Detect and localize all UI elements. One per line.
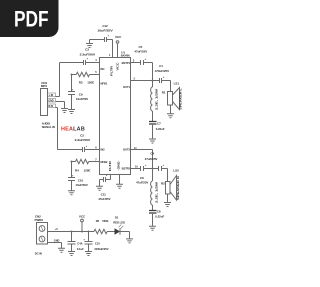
- wire C1 to speaker LS1: [162, 81, 171, 92]
- svg-text:VCC: VCC: [79, 214, 86, 218]
- svg-text:+: +: [162, 163, 164, 167]
- svg-text:IN1: IN1: [101, 67, 106, 71]
- wire C14 down: [71, 232, 73, 242]
- resistor R3: [72, 74, 77, 76]
- capacitor C14 plates: [68, 242, 76, 245]
- node VCC terminal: [116, 41, 119, 44]
- svg-text:C4: C4: [150, 152, 154, 156]
- svg-text:120E: 120E: [84, 168, 91, 172]
- wire C5 to OUT1 node: [144, 63, 153, 81]
- speaker LS1: [168, 88, 180, 110]
- wire C7 to ground: [152, 124, 154, 139]
- svg-text:C8: C8: [157, 210, 161, 214]
- svg-text:2.2uF/50V: 2.2uF/50V: [75, 138, 91, 142]
- svg-text:C10: C10: [95, 242, 100, 246]
- resistor R4: [72, 161, 76, 163]
- svg-text:2.2E, 1/2W: 2.2E, 1/2W: [154, 88, 158, 110]
- svg-text:FLTR: FLTR: [110, 66, 114, 76]
- node VCC terminal 2: [81, 219, 84, 222]
- svg-text:SIGNAL IN: SIGNAL IN: [42, 125, 55, 129]
- ground C11: [96, 186, 103, 190]
- wire C2 to IN2 pin 6: [85, 149, 100, 151]
- svg-text:+V: +V: [55, 228, 58, 231]
- connector CN1 body: [41, 89, 48, 116]
- svg-text:10uF/25V: 10uF/25V: [97, 29, 113, 33]
- svg-text:RED LED: RED LED: [113, 221, 125, 225]
- svg-text:C2: C2: [80, 134, 84, 138]
- capacitor C3 plates: [84, 60, 86, 65]
- node R4/C10 junction: [71, 161, 73, 163]
- ground IC GND: [116, 184, 123, 188]
- svg-text:C1: C1: [159, 64, 163, 68]
- wire C13 to ground: [152, 213, 154, 226]
- ground D1: [126, 239, 133, 243]
- svg-text:R4: R4: [75, 168, 79, 172]
- svg-text:R IN: R IN: [48, 105, 53, 108]
- wire C3 to IN1 pin 4: [86, 62, 100, 64]
- PDF badge: [0, 0, 59, 37]
- wire +V rail: [48, 231, 95, 233]
- connector CN1 pin box R IN: [48, 104, 56, 108]
- capacitor C5 plates: [141, 60, 144, 65]
- node junction C14: [71, 231, 73, 233]
- svg-text:7: 7: [95, 158, 97, 161]
- wire C12 to ground: [90, 40, 105, 44]
- ground CN2: [58, 248, 65, 252]
- ground CN1: [61, 109, 68, 113]
- connector CN1 pin box GND: [48, 99, 56, 103]
- svg-text:BA5406: BA5406: [121, 55, 131, 58]
- node junction C8: [88, 231, 90, 233]
- svg-text:VCC: VCC: [116, 62, 120, 70]
- wire OUT2 pin 11: [131, 150, 153, 169]
- svg-text:R5: R5: [96, 219, 100, 223]
- capacitor C12 plates: [105, 37, 107, 42]
- svg-text:0.1uF: 0.1uF: [77, 247, 84, 251]
- wire CN1 GND to ground: [56, 102, 65, 109]
- wire R5 to D1: [107, 231, 114, 233]
- svg-text:PDF: PDF: [14, 6, 49, 31]
- svg-text:PWR2: PWR2: [35, 218, 44, 222]
- svg-text:C12: C12: [102, 24, 108, 28]
- svg-text:DC IN: DC IN: [35, 251, 42, 255]
- wire R IN to C2: [56, 108, 83, 150]
- capacitor C11 plates: [104, 177, 106, 182]
- capacitor C7 plates: [149, 122, 157, 125]
- svg-text:C11: C11: [101, 193, 107, 197]
- resistor R2: [152, 169, 154, 182]
- connector CN2 body: [37, 223, 48, 245]
- wire C8 to ground: [88, 244, 90, 251]
- svg-text:120E: 120E: [87, 80, 94, 84]
- wire R4 to NFB2 pin 7: [89, 161, 100, 163]
- svg-text:+: +: [107, 34, 109, 38]
- capacitor C6 plates: [141, 166, 144, 171]
- wire C8 down: [88, 232, 90, 242]
- svg-text:GND: GND: [48, 100, 53, 103]
- capacitor C13 plates: [149, 211, 157, 214]
- ground LS2: [164, 203, 171, 207]
- wire node to C10: [71, 162, 73, 178]
- node OUT2 junction: [152, 168, 154, 170]
- wire CN2 GND to ground: [48, 243, 62, 249]
- svg-text:1000uF/25V: 1000uF/25V: [94, 247, 109, 251]
- svg-text:L IN: L IN: [49, 94, 54, 97]
- svg-text:C3: C3: [85, 48, 89, 52]
- wire LS1 to ground: [170, 105, 172, 114]
- svg-text:R1: R1: [162, 91, 166, 95]
- svg-text:IN2: IN2: [101, 147, 106, 151]
- svg-text:1: 1: [109, 54, 111, 57]
- svg-text:FLTR: FLTR: [108, 161, 112, 171]
- wire node to C9: [71, 75, 73, 92]
- connector CN1 pin box L IN: [48, 93, 56, 97]
- capacitor C10 plates: [68, 178, 75, 181]
- svg-text:47uF/25V: 47uF/25V: [134, 50, 147, 54]
- svg-text:0.22uF: 0.22uF: [156, 127, 165, 131]
- capacitor C2 plates: [83, 147, 85, 152]
- node R3/C9 junction: [71, 74, 73, 76]
- svg-text:+: +: [163, 75, 165, 79]
- svg-text:0.22uF: 0.22uF: [155, 215, 164, 219]
- wire BSTP1 pin 3 to C5: [131, 62, 141, 64]
- ground C14: [68, 252, 75, 256]
- wire VCC to pin 14: [117, 43, 119, 57]
- svg-text:C9: C9: [79, 92, 83, 96]
- wire LS2 to ground: [167, 194, 169, 202]
- wire FLTR1 pin 1 to C12: [107, 40, 113, 58]
- svg-text:47uF/25V: 47uF/25V: [136, 180, 148, 184]
- svg-text:47uF/25V: 47uF/25V: [145, 157, 158, 161]
- node junction VCC rail: [81, 231, 83, 233]
- wire BSTP2 pin 10 to C6: [131, 168, 141, 170]
- wire OUT1 pin 2: [131, 80, 160, 82]
- ground C8: [85, 252, 92, 256]
- op-amp U1 BA5406 IC body: [100, 58, 131, 175]
- svg-text:LS1: LS1: [174, 82, 180, 86]
- ground C7: [149, 139, 156, 143]
- ground C12: [86, 44, 93, 48]
- ground C10: [68, 191, 75, 195]
- wire FLTR2 pin to C11: [106, 175, 111, 180]
- connector CN2 terminal 1: [39, 226, 45, 232]
- wire C9 to ground: [71, 95, 73, 110]
- svg-text:560E: 560E: [102, 219, 108, 223]
- wire R3 to NFB1 pin 5: [90, 74, 100, 76]
- svg-text:C10: C10: [78, 178, 84, 182]
- svg-text:10uF/50V: 10uF/50V: [76, 97, 88, 101]
- svg-text:5: 5: [95, 71, 97, 74]
- svg-text:GND: GND: [54, 239, 60, 242]
- wire C4 to speaker LS2: [162, 169, 168, 182]
- svg-text:NFB1: NFB1: [101, 82, 108, 86]
- svg-text:OUT2: OUT2: [123, 147, 131, 151]
- svg-text:BSTP2: BSTP2: [122, 166, 131, 170]
- svg-text:+: +: [106, 173, 108, 177]
- svg-text:LS2: LS2: [173, 169, 179, 173]
- svg-text:+: +: [87, 57, 89, 61]
- svg-text:SPEAKER R: SPEAKER R: [176, 175, 180, 200]
- resistor R1: [152, 81, 154, 88]
- svg-text:VCC: VCC: [115, 35, 122, 39]
- svg-text:C5: C5: [139, 45, 143, 49]
- capacitor C8 plates: [85, 242, 93, 245]
- svg-text:2.2E, 1/2W: 2.2E, 1/2W: [155, 181, 159, 203]
- svg-text:C7: C7: [157, 122, 161, 126]
- svg-text:4: 4: [95, 59, 97, 62]
- svg-text:R3: R3: [79, 80, 83, 84]
- ground C13: [149, 226, 156, 230]
- svg-text:MP3: MP3: [41, 84, 47, 88]
- wire GND pin to ground: [119, 175, 121, 185]
- wire VCC2 down to rail: [81, 222, 83, 232]
- svg-text:NFB2: NFB2: [101, 160, 108, 164]
- diode D1 LED: [115, 225, 124, 235]
- svg-text:+: +: [145, 163, 147, 167]
- svg-text:SPEAKER L: SPEAKER L: [178, 88, 182, 110]
- svg-text:BSTP1: BSTP1: [122, 61, 131, 65]
- ground LS1: [167, 114, 174, 118]
- svg-text:C6: C6: [140, 176, 144, 180]
- capacitor C9 plates: [68, 92, 75, 95]
- svg-text:+: +: [86, 144, 88, 148]
- svg-text:3: 3: [133, 59, 135, 62]
- wire C14 to ground: [71, 244, 73, 251]
- capacitor C1 plates: [160, 78, 162, 83]
- svg-text:47uF/25V: 47uF/25V: [98, 197, 110, 201]
- wire C10 to ground: [71, 181, 73, 191]
- capacitor C4 plates: [159, 166, 162, 171]
- svg-text:470uF/25V: 470uF/25V: [155, 69, 169, 73]
- svg-text:D1: D1: [115, 216, 119, 220]
- svg-text:+: +: [145, 57, 147, 61]
- speaker LS2: [166, 176, 177, 201]
- svg-text:+: +: [83, 237, 85, 241]
- connector CN2 terminal 2: [39, 236, 45, 242]
- wire C11 to ground: [100, 180, 104, 187]
- svg-text:C4A: C4A: [77, 242, 82, 246]
- svg-text:R2: R2: [161, 182, 165, 186]
- node OUT1 junction: [152, 80, 154, 82]
- wire D1 to ground: [120, 232, 130, 239]
- resistor R5: [94, 229, 107, 233]
- wire C6 to OUT2 node: [144, 168, 159, 170]
- ground C9: [68, 110, 75, 114]
- svg-text:OUT1: OUT1: [123, 85, 131, 89]
- wire L IN to C3: [56, 63, 84, 97]
- svg-text:HEALAB: HEALAB: [61, 126, 85, 132]
- svg-text:GND: GND: [116, 161, 120, 169]
- svg-text:10uF/50V: 10uF/50V: [76, 183, 88, 187]
